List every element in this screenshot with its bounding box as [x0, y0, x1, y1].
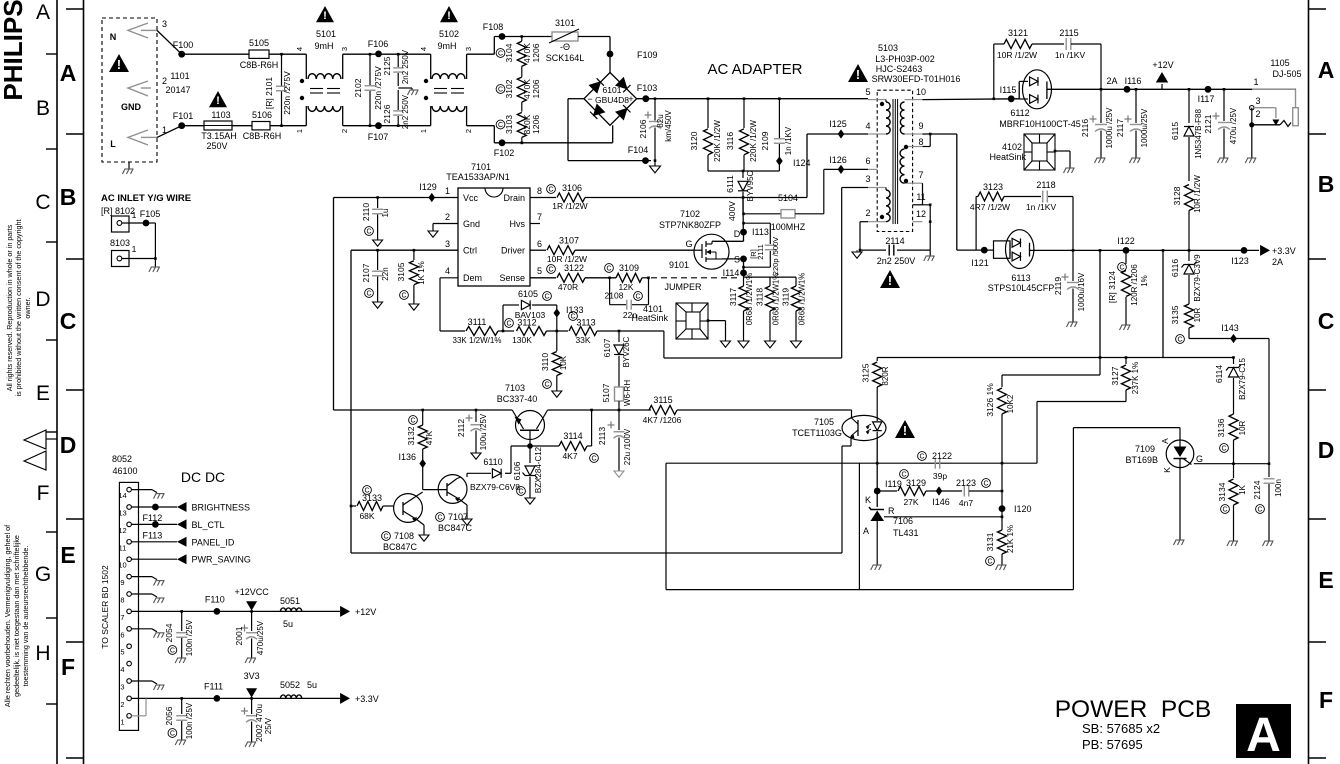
wire 5102 to F102	[467, 125, 495, 127]
copyright notice english (rotated)	[5, 224, 14, 391]
capacitor 2125 Y-cap	[397, 54, 399, 67]
svg-text:L: L	[110, 139, 116, 149]
svg-text:3: 3	[464, 47, 473, 51]
svg-text:7: 7	[120, 613, 124, 622]
node I117	[1205, 86, 1212, 93]
svg-text:BT169B: BT169B	[1125, 455, 1158, 465]
svg-text:C: C	[1222, 507, 1227, 514]
svg-text:5051: 5051	[280, 596, 300, 606]
svg-text:1206: 1206	[531, 115, 541, 134]
node I126	[838, 165, 845, 174]
svg-text:Hvs: Hvs	[510, 219, 526, 229]
svg-text:1: 1	[445, 186, 450, 196]
capacitor 2121	[1223, 88, 1226, 91]
svg-text:3134: 3134	[1217, 482, 1227, 501]
Vcc wire pin1	[334, 197, 459, 199]
wire I125 to pin4 and drain rail	[807, 133, 868, 135]
+12VCC arrow	[250, 610, 253, 613]
svg-text:BZX284-C12: BZX284-C12	[534, 446, 543, 493]
svg-text:G: G	[1196, 454, 1203, 464]
svg-text:6111: 6111	[725, 175, 735, 193]
resistor 3128	[1185, 185, 1194, 211]
svg-text:3103: 3103	[504, 115, 514, 134]
svg-text:A: A	[1246, 709, 1281, 762]
svg-text:2A: 2A	[1106, 76, 1117, 86]
svg-text:3126 1%: 3126 1%	[985, 383, 995, 417]
svg-text:A: A	[36, 1, 50, 24]
svg-text:250V: 250V	[206, 141, 227, 151]
svg-text:I126: I126	[829, 155, 847, 165]
transistor 7107 BC847C	[438, 475, 467, 504]
svg-text:2121: 2121	[1203, 114, 1213, 133]
resistor 3114	[559, 442, 587, 451]
svg-text:7105: 7105	[814, 417, 834, 427]
svg-text:C: C	[35, 191, 50, 214]
svg-text:A: A	[1318, 57, 1335, 83]
svg-text:A: A	[60, 60, 77, 86]
svg-text:BZX79-C6V8: BZX79-C6V8	[470, 482, 520, 492]
svg-text:7102: 7102	[680, 209, 700, 219]
svg-text:2: 2	[120, 700, 124, 709]
svg-text:C: C	[591, 456, 596, 463]
svg-text:5103: 5103	[878, 43, 898, 53]
warning triangle below transformer	[880, 270, 900, 288]
clamp diode 6111 BYV95C	[742, 170, 745, 173]
svg-text:5u: 5u	[307, 680, 317, 690]
svg-text:!: !	[856, 68, 860, 82]
resistor 3135	[1185, 304, 1194, 328]
svg-text:D: D	[734, 229, 741, 239]
svg-text:5107: 5107	[601, 383, 611, 402]
output rail 12V	[1100, 88, 1103, 91]
wire NTC to F109	[578, 36, 610, 38]
Vcc supply line y410	[334, 409, 513, 411]
svg-text:1n /1KV: 1n /1KV	[1055, 50, 1086, 60]
node I116 2A	[1124, 86, 1131, 93]
capacitor 2102 X-cap	[369, 54, 371, 85]
svg-text:9: 9	[918, 121, 923, 131]
capacitor 2123	[939, 490, 962, 492]
left outer grid ticks	[46, 53, 57, 55]
node I143	[1230, 334, 1237, 343]
3V3 arrow	[250, 697, 253, 700]
snubber bottom wire	[708, 170, 779, 172]
pin9 ground	[131, 576, 152, 578]
svg-text:F109: F109	[637, 50, 658, 60]
svg-text:F106: F106	[368, 39, 389, 49]
svg-text:W6-RH: W6-RH	[623, 380, 632, 406]
diode 6110 BZX79-C6V8	[492, 469, 501, 478]
svg-text:9mH: 9mH	[314, 41, 333, 51]
Y-cap midpoint ground	[398, 87, 412, 89]
resistor 5106	[252, 122, 270, 130]
+3.3V output arrow	[340, 693, 350, 704]
svg-text:2119: 2119	[1053, 277, 1063, 296]
svg-text:5: 5	[120, 648, 124, 657]
svg-text:−: −	[587, 94, 592, 104]
svg-text:8: 8	[120, 596, 124, 605]
svg-text:220K /1/2W: 220K /1/2W	[749, 120, 758, 162]
thyristor 7109 BT169B	[1166, 440, 1194, 468]
svg-text:BL_CTL: BL_CTL	[192, 520, 225, 530]
svg-text:I121: I121	[971, 258, 989, 268]
wire F106 to 5102	[379, 53, 431, 55]
snubber resistor 3123	[975, 197, 977, 251]
svg-text:F105: F105	[140, 209, 161, 219]
svg-text:4K7: 4K7	[562, 451, 577, 461]
svg-text:BC847C: BC847C	[438, 523, 473, 533]
snubber resistor 3120	[707, 97, 710, 100]
snubber capacitor 2115	[1065, 38, 1067, 50]
svg-text:TO SCALER BD 1502: TO SCALER BD 1502	[100, 565, 110, 649]
svg-text:I123: I123	[1231, 256, 1249, 266]
svg-text:C: C	[544, 382, 549, 389]
svg-text:L3-PH03P-002: L3-PH03P-002	[875, 54, 935, 64]
node I121	[981, 247, 988, 254]
resistor 3111	[466, 327, 498, 336]
svg-text:470u/25V: 470u/25V	[256, 620, 265, 655]
svg-text:C: C	[366, 291, 371, 298]
svg-text:F: F	[61, 654, 75, 680]
svg-text:PANEL_ID: PANEL_ID	[192, 537, 235, 547]
connector 8052 body	[119, 482, 138, 730]
svg-text:BYV26C: BYV26C	[622, 336, 631, 367]
svg-text:BRIGHTNESS: BRIGHTNESS	[192, 503, 251, 513]
svg-text:K: K	[865, 495, 871, 505]
svg-text:JUMPER: JUMPER	[664, 282, 702, 292]
svg-text:3V3: 3V3	[244, 671, 260, 681]
svg-text:R: R	[888, 506, 895, 516]
svg-text:22u /100V: 22u /100V	[623, 428, 632, 465]
Ctrl wire pin3	[351, 249, 458, 251]
transformer secondary winding 8-7	[905, 146, 913, 148]
svg-text:1105: 1105	[1270, 58, 1289, 68]
svg-text:I116: I116	[1125, 76, 1142, 86]
pins 7 11 12 to secondary ground	[922, 183, 924, 205]
Drain pin8 wire and resistor 3106	[530, 197, 556, 199]
svg-text:1: 1	[295, 129, 304, 133]
AC inlet pin L arrow	[128, 130, 148, 145]
svg-text:F100: F100	[173, 40, 194, 50]
inductor 5051	[281, 608, 302, 611]
svg-text:!: !	[323, 10, 327, 22]
svg-text:[R] 3124: [R] 3124	[1107, 271, 1117, 303]
svg-text:D: D	[1318, 437, 1335, 463]
svg-text:TEA1533AP/N1: TEA1533AP/N1	[446, 172, 510, 182]
bulk capacitor 2106	[654, 97, 657, 100]
revision triangle markers left	[24, 430, 46, 449]
svg-text:!: !	[447, 10, 451, 22]
svg-text:3: 3	[120, 683, 124, 692]
svg-text:220K /1/2W: 220K /1/2W	[713, 120, 722, 162]
capacitor 2122	[934, 458, 936, 469]
svg-text:10: 10	[916, 87, 926, 97]
bridge minus to F104 rail	[568, 98, 584, 100]
pins 8 9 tied	[923, 146, 931, 148]
line filter choke 5101	[316, 6, 334, 22]
wire choke 5101 to F107	[343, 125, 379, 127]
svg-text:1206: 1206	[531, 43, 541, 62]
wire F103 rail to transformer pin5	[637, 98, 868, 100]
pin2 +3.3V output wire	[131, 697, 340, 699]
node I133	[553, 308, 560, 317]
transformer pin stubs right	[913, 99, 923, 101]
transistor 7103 BC337-40	[516, 411, 545, 440]
svg-text:STP7NK80ZFP: STP7NK80ZFP	[659, 220, 721, 230]
svg-text:237K 1%: 237K 1%	[1131, 362, 1140, 394]
svg-text:C: C	[498, 87, 503, 94]
svg-text:C: C	[498, 122, 503, 129]
+12V arrow	[1161, 84, 1163, 89]
gate line	[1194, 463, 1269, 465]
svg-text:C: C	[437, 515, 442, 522]
svg-text:GND: GND	[121, 102, 142, 112]
svg-text:7106: 7106	[893, 516, 913, 526]
svg-text:I120: I120	[1014, 504, 1032, 514]
zener 6115 1N5347B-F88	[1188, 88, 1191, 91]
svg-text:I117: I117	[1198, 94, 1215, 104]
svg-text:H: H	[35, 642, 50, 665]
capacitor 2110	[376, 196, 379, 199]
svg-text:68K: 68K	[359, 511, 374, 521]
resistor 3109	[608, 277, 611, 280]
NTC 3101 SCK164L	[552, 32, 578, 41]
svg-text:3: 3	[340, 47, 349, 51]
svg-text:F112: F112	[142, 513, 162, 523]
AC inlet chassis ground	[128, 162, 130, 169]
mosfet 7102 STP7NK80ZFP	[694, 234, 729, 269]
svg-text:PB: 57695: PB: 57695	[1082, 737, 1143, 752]
capacitor 2117	[1135, 88, 1138, 91]
svg-text:+12V: +12V	[355, 607, 376, 617]
svg-text:3129: 3129	[906, 478, 926, 488]
resistor 3134	[1233, 464, 1235, 478]
wire 1103 to 5106	[232, 125, 252, 127]
svg-text:8052: 8052	[112, 454, 132, 464]
svg-text:2125: 2125	[382, 56, 392, 75]
svg-text:3119: 3119	[781, 288, 791, 307]
left inner grid ticks	[66, 8, 84, 10]
svg-text:I143: I143	[1221, 323, 1239, 333]
svg-text:+12V: +12V	[1152, 60, 1173, 70]
shunt resistor 3117	[743, 277, 745, 286]
svg-text:8: 8	[537, 186, 542, 196]
svg-text:6107: 6107	[602, 338, 612, 357]
svg-text:5102: 5102	[439, 29, 459, 39]
jumper 9101 dashed	[651, 277, 741, 279]
svg-text:3118: 3118	[755, 288, 765, 307]
svg-text:6105: 6105	[518, 289, 538, 299]
drain net junction to 5104	[742, 196, 745, 199]
pin8 ground	[131, 593, 152, 595]
wire F100 to 5105	[182, 53, 249, 55]
rail drop x1163	[1162, 249, 1165, 252]
node F103	[642, 95, 649, 102]
svg-text:27K: 27K	[903, 497, 918, 507]
svg-text:C: C	[1257, 507, 1262, 514]
capacitor 2126 Y-cap	[397, 90, 399, 110]
TL431 ref wire	[884, 516, 1002, 518]
svg-text:1: 1	[419, 129, 428, 133]
wire F102 to bridge AC2	[522, 142, 613, 144]
capacitor 2108	[609, 278, 611, 305]
svg-text:2126: 2126	[382, 104, 392, 123]
right grid ticks	[1309, 8, 1327, 10]
pin11 PANEL_ID	[131, 541, 177, 543]
svg-text:2107: 2107	[361, 263, 371, 282]
svg-text:E: E	[60, 542, 75, 568]
node F110	[214, 608, 221, 615]
svg-text:Ctrl: Ctrl	[463, 246, 477, 256]
svg-text:HeatSink: HeatSink	[631, 313, 668, 323]
svg-text:2n2 250V: 2n2 250V	[401, 49, 410, 84]
resistor 3129	[877, 490, 897, 492]
svg-text:F101: F101	[173, 111, 194, 121]
svg-text:F: F	[1319, 687, 1333, 713]
svg-text:C: C	[548, 267, 553, 274]
capacitor 2001	[251, 611, 253, 631]
capacitor 2112	[475, 409, 478, 412]
svg-text:3135: 3135	[1170, 305, 1180, 324]
svg-text:3115: 3115	[653, 395, 672, 405]
svg-text:100n /25V: 100n /25V	[185, 702, 194, 739]
resistor 3112	[517, 327, 547, 336]
resistor 3124	[1125, 250, 1127, 264]
dual diode 6113 STPS10L45CFP	[994, 241, 1011, 258]
svg-text:3128: 3128	[1172, 186, 1182, 205]
resistor 3127	[1125, 356, 1128, 359]
pin7 +12V output wire	[131, 610, 340, 612]
node I129	[428, 193, 435, 202]
svg-text:47K: 47K	[425, 430, 434, 445]
transistor 7108 BC847C	[394, 494, 423, 523]
svg-text:C: C	[919, 454, 924, 461]
svg-text:7109: 7109	[1135, 444, 1155, 454]
svg-text:E: E	[1318, 567, 1333, 593]
svg-text:toestemming van de auteursrech: toestemming van de auteursrechthebbende.	[21, 546, 30, 687]
svg-text:1000u /25V: 1000u /25V	[1105, 107, 1114, 149]
svg-text:BZX79-C15: BZX79-C15	[1238, 358, 1247, 400]
capacitor 2113	[618, 409, 621, 412]
svg-text:I122: I122	[1117, 236, 1135, 246]
svg-text:F110: F110	[205, 594, 225, 604]
svg-text:G: G	[35, 563, 51, 586]
base node of 7103	[529, 430, 531, 446]
svg-text:10R: 10R	[1193, 307, 1202, 322]
node F102	[499, 139, 506, 146]
node I146	[936, 486, 943, 495]
pin14 ground	[131, 489, 152, 491]
svg-text:I146: I146	[932, 497, 950, 507]
resistor 3110	[556, 331, 558, 351]
svg-text:SB: 57685 x2: SB: 57685 x2	[1082, 721, 1160, 736]
Hvs pin7 stub	[530, 223, 540, 225]
svg-text:100u /25V: 100u /25V	[479, 413, 488, 450]
svg-text:C: C	[170, 648, 175, 655]
pin3 ground	[131, 680, 152, 682]
bleeder resistor 3104	[521, 35, 524, 38]
svg-text:2: 2	[340, 129, 349, 133]
opto transistor side	[848, 409, 852, 411]
svg-text:100n /25V: 100n /25V	[185, 619, 194, 656]
svg-text:AC INLET Y/G WIRE: AC INLET Y/G WIRE	[101, 193, 191, 204]
svg-text:4: 4	[445, 266, 450, 276]
wire I126 to pin6	[841, 168, 868, 170]
svg-text:5052: 5052	[280, 680, 300, 690]
svg-text:2001: 2001	[234, 626, 244, 645]
svg-text:4: 4	[419, 47, 428, 51]
svg-text:!: !	[117, 58, 121, 72]
svg-text:8103: 8103	[110, 238, 130, 248]
svg-text:C: C	[570, 314, 575, 321]
svg-text:4: 4	[120, 665, 124, 674]
shunt top wire	[744, 276, 797, 278]
sense line y357	[877, 357, 1233, 359]
svg-text:A: A	[1160, 438, 1170, 444]
svg-text:C: C	[170, 731, 175, 738]
transformer primary winding 3-2	[877, 187, 886, 189]
svg-text:220p /500V: 220p /500V	[771, 237, 780, 275]
svg-text:I129: I129	[419, 182, 437, 192]
resistor 3131	[1001, 464, 1003, 530]
svg-text:10R: 10R	[1238, 420, 1247, 435]
svg-text:3133: 3133	[362, 493, 382, 503]
node I122	[1123, 247, 1130, 254]
svg-text:100MHZ: 100MHZ	[771, 222, 806, 232]
svg-text:F104: F104	[628, 145, 649, 155]
wire 5105 to choke 5101	[269, 53, 306, 55]
svg-text:C: C	[1119, 265, 1124, 272]
svg-text:1: 1	[1253, 77, 1258, 87]
svg-text:9: 9	[120, 578, 124, 587]
svg-text:1103: 1103	[211, 110, 230, 120]
svg-text:7101: 7101	[471, 162, 491, 172]
svg-text:2116: 2116	[1080, 119, 1090, 138]
svg-text:C8B-R6H: C8B-R6H	[240, 60, 279, 70]
svg-text:3136: 3136	[1216, 418, 1226, 437]
svg-text:DJ-505: DJ-505	[1272, 69, 1301, 79]
svg-text:is prohibited without the writ: is prohibited without the written consen…	[14, 220, 23, 397]
svg-text:B: B	[36, 97, 50, 120]
svg-text:!: !	[903, 424, 907, 438]
7109 anode wire	[1073, 427, 1180, 429]
svg-text:2054: 2054	[164, 623, 174, 642]
Y-capacitor 2114	[860, 249, 886, 251]
svg-text:PHILIPS: PHILIPS	[0, 0, 28, 101]
svg-text:TCET1103G: TCET1103G	[792, 428, 842, 438]
svg-text:2111: 2111	[756, 244, 765, 260]
capacitor 2116	[1100, 89, 1102, 123]
svg-text:2106: 2106	[638, 119, 648, 138]
svg-text:C8B-R6H: C8B-R6H	[243, 131, 282, 141]
svg-text:1101: 1101	[170, 71, 189, 81]
warning triangle in AC inlet	[109, 54, 129, 72]
wire pin1 to F101	[157, 126, 182, 138]
svg-text:0R68 /1/2W1%: 0R68 /1/2W1%	[798, 273, 807, 326]
capacitor 2124	[1268, 462, 1271, 465]
svg-text:D: D	[60, 432, 77, 458]
snubber resistor 3116	[743, 97, 746, 100]
svg-text:6: 6	[865, 156, 870, 166]
resistor 3125	[876, 358, 878, 362]
svg-text:2: 2	[1255, 109, 1260, 119]
right frame vertical line	[1308, 0, 1310, 764]
svg-text:2114: 2114	[885, 236, 904, 246]
earth wires to ground	[146, 222, 155, 224]
svg-text:SRW30EFD-T01H016: SRW30EFD-T01H016	[872, 74, 961, 84]
svg-text:820R: 820R	[881, 366, 890, 385]
svg-text:-Θ: -Θ	[560, 42, 570, 52]
